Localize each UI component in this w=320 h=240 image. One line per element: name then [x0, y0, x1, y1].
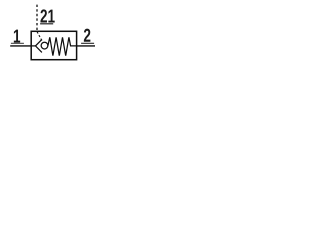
underline label 2	[81, 42, 94, 44]
spring	[48, 37, 77, 55]
label port 21	[40, 9, 54, 22]
wire port 1 (left)	[10, 45, 31, 47]
pilot dashed diagonal to ball	[37, 32, 43, 43]
valve body box	[31, 31, 76, 59]
underline label 1	[11, 42, 24, 44]
label port 2	[84, 29, 91, 42]
valve seat	[36, 39, 42, 52]
pilot-operated check valve schematic	[0, 0, 106, 75]
underline label 21	[40, 23, 53, 25]
wire port 2 (right)	[77, 45, 95, 47]
pilot line 21 (dashed vertical)	[36, 5, 38, 32]
label port 1	[14, 30, 20, 43]
wire inside box left	[31, 45, 35, 47]
ball	[41, 42, 48, 49]
